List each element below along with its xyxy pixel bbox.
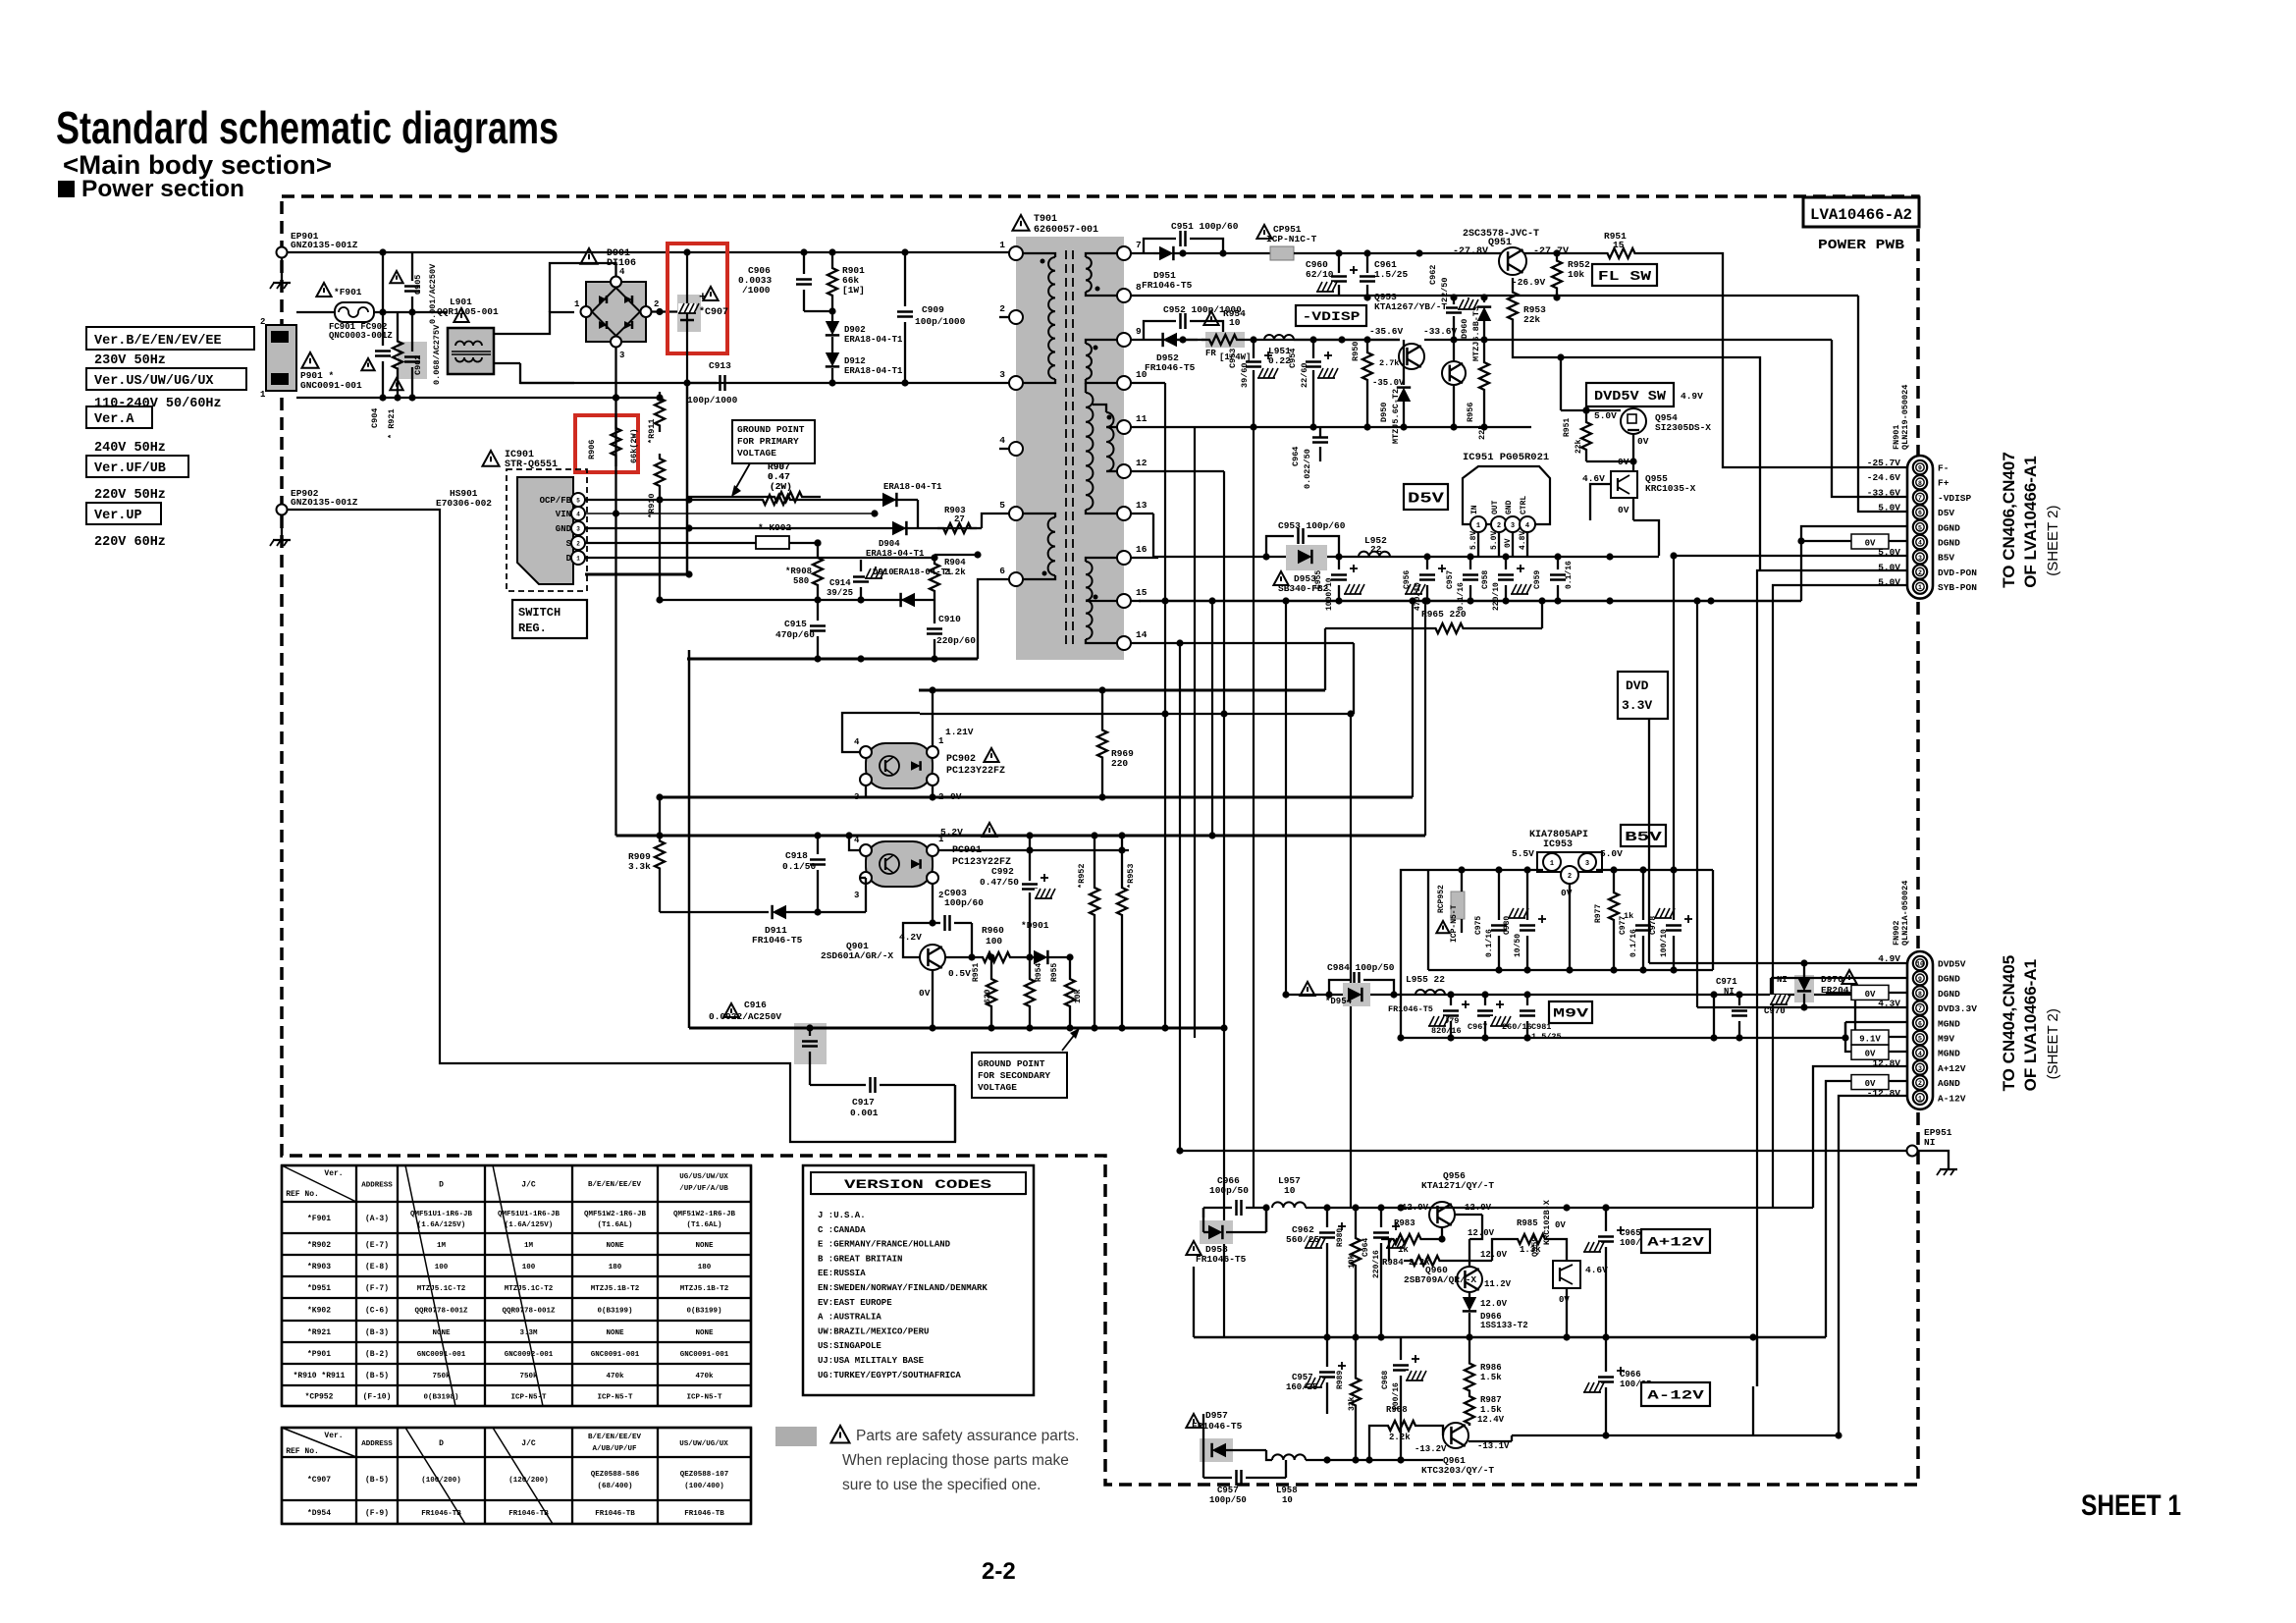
transistor Q901 [920,945,945,970]
svg-text:C905: C905 [413,275,423,295]
svg-text:FR1046-T5: FR1046-T5 [1388,1004,1433,1014]
wire rail 851 [616,835,1426,838]
svg-text:3: 3 [1585,860,1589,868]
svg-text:-VDISP: -VDISP [1302,309,1360,324]
svg-text:2: 2 [1497,522,1501,530]
svg-text:MTZJ6.8B-T3: MTZJ6.8B-T3 [1471,306,1481,361]
svg-text:UG:TURKEY/EGYPT/SOUTHAFRICA: UG:TURKEY/EGYPT/SOUTHAFRICA [818,1371,961,1380]
inductor L951 [1264,335,1294,340]
svg-text:NONE: NONE [695,1242,714,1250]
svg-text:MGND: MGND [1938,1018,1960,1029]
wire R988 left [1369,1426,1382,1460]
note ground point primary [732,420,815,463]
wire D body bottom [585,573,689,576]
connector FN902 pin 1 A-12V [1913,1091,1927,1105]
svg-text:1M: 1M [524,1242,534,1250]
resistor R986 [1465,1360,1474,1394]
svg-text:220/16: 220/16 [1372,1250,1381,1278]
capacitor C977 [1635,924,1651,927]
wire rail 671 [687,658,978,661]
wire D5V rail [1153,556,1659,558]
wire Q954 rail [1561,409,1621,411]
svg-text:(100/200): (100/200) [421,1477,461,1485]
svg-text:(68/400): (68/400) [597,1483,632,1490]
svg-text:1: 1 [1918,584,1922,591]
svg-text:(2W): (2W) [770,481,792,492]
svg-text:-26.9V: -26.9V [1512,277,1546,288]
IC901 pin D [571,551,585,565]
zener D950 [1397,388,1411,402]
resistor R901 [828,252,837,311]
capacitor C910 [927,627,942,630]
svg-text:MTZJ5.1C-T2: MTZJ5.1C-T2 [417,1285,466,1293]
capacitor C971 [1732,1009,1747,1012]
wire S pin [585,542,756,544]
wire Q901 base [903,923,933,957]
svg-text:D: D [566,554,572,564]
wire pin5 line [918,527,982,529]
wire rail 1047 [689,1027,1224,1030]
capacitor C964b [1373,1231,1389,1234]
wire Q959 down [1566,1288,1568,1337]
svg-text:L955 22: L955 22 [1406,974,1445,985]
svg-text:R987: R987 [1480,1395,1502,1405]
svg-text:C917: C917 [852,1097,875,1108]
svg-text:C957: C957 [1446,570,1455,589]
diode D904 [892,521,906,535]
svg-text:C953 100p/60: C953 100p/60 [1278,520,1346,531]
connector FN902 pin 4 MGND [1913,1046,1927,1059]
svg-text:3: 3 [854,891,859,900]
svg-text:5.8V: 5.8V [1469,531,1478,550]
wire fuse to L901 [374,311,448,313]
svg-text:ICP-N5-T: ICP-N5-T [686,1394,722,1402]
diode D901s [1034,950,1047,964]
svg-text:C913: C913 [709,360,731,371]
svg-text:D5V: D5V [1408,490,1444,507]
svg-text:2: 2 [938,792,943,802]
wire d958 join [1265,1208,1267,1232]
wire rail F+ [1130,295,1858,297]
svg-text:-VDISP: -VDISP [1938,493,1972,504]
T901 pin 3 [1009,376,1023,390]
version codes box [803,1165,1034,1395]
svg-text:B5V: B5V [1625,830,1663,845]
svg-text:FR: FR [1205,349,1216,358]
wire Q955 vert [1632,461,1634,471]
T901 pin 12 [1117,464,1131,478]
wire rail pin12 [1130,470,1224,472]
svg-text:ERA18-04-T1: ERA18-04-T1 [883,482,942,492]
svg-text:0V: 0V [1637,436,1649,447]
wire P901 bottom [296,397,616,399]
svg-text:VOLTAGE: VOLTAGE [978,1082,1017,1093]
capacitor C965 [1598,1235,1614,1238]
svg-text:11.2V: 11.2V [1484,1279,1512,1289]
resistor R951d [1581,410,1591,461]
wire rail pin10 [1130,382,1165,384]
capacitor C953 [1266,536,1294,557]
svg-text:J/C: J/C [521,1181,536,1190]
wire bottom gnd rail [1194,1336,1826,1338]
IC951 pin GND [1505,516,1521,532]
wire bridge bottom rail [616,397,661,399]
svg-text:C962: C962 [1428,265,1438,285]
protector CP951 [1270,246,1294,260]
connector FN902 pin 8 DGND [1913,986,1927,1000]
wire rail VDISP [1130,339,1400,341]
svg-text:OCP/FB: OCP/FB [540,496,572,506]
svg-text:470k: 470k [695,1373,714,1380]
svg-text:33k: 33k [1348,1396,1357,1411]
svg-text:FR1046-T5: FR1046-T5 [1192,1421,1243,1432]
fuse FC901 [335,302,374,322]
svg-text:DVD5V SW: DVD5V SW [1594,389,1667,405]
resistor R984 [1404,1256,1448,1266]
svg-text:GNC0091-001: GNC0091-001 [417,1351,466,1359]
schematic dashed border [282,196,1918,1485]
svg-text:AGND: AGND [1938,1078,1960,1089]
svg-text:FOR PRIMARY: FOR PRIMARY [737,436,799,447]
svg-text:4: 4 [1918,540,1922,547]
svg-text:ERA18-04-T1: ERA18-04-T1 [844,366,903,376]
wire bottom left vert [1202,1208,1204,1217]
connector FN902 pin 5 M9V [1913,1031,1927,1045]
T901 pin2 stub [999,316,1011,318]
svg-text:B :GREAT BRITAIN: B :GREAT BRITAIN [818,1254,902,1264]
svg-text:LVA10466-A2: LVA10466-A2 [1810,206,1912,224]
svg-text:(T1.6AL): (T1.6AL) [686,1221,721,1229]
svg-text:UG/US/UW/UX: UG/US/UW/UX [679,1173,728,1181]
svg-text:*R921: *R921 [307,1328,331,1337]
svg-text:*D901: *D901 [1021,920,1049,931]
svg-text:220p/60: 220p/60 [936,635,976,646]
svg-text:22/60: 22/60 [1300,362,1309,388]
svg-text:470p/60: 470p/60 [775,629,815,640]
svg-text:R950: R950 [1351,342,1361,361]
svg-text:1.5k: 1.5k [1480,1373,1502,1382]
wire rail pin13 [1130,513,1153,514]
svg-text:C968: C968 [1381,1371,1390,1389]
svg-text:TO CN406,CN407: TO CN406,CN407 [2000,452,2018,588]
svg-text:12.4V: 12.4V [1477,1415,1505,1425]
wire L901 lower to rail [494,362,520,364]
resistor R907 [756,495,797,505]
wire bus 1277 [1253,427,1255,1208]
svg-text:R986: R986 [1480,1363,1502,1373]
svg-text:0.022/50: 0.022/50 [1303,449,1312,489]
wire DVD5V to pin10 [1649,962,1908,964]
svg-text:OUT: OUT [1491,500,1500,514]
DVD 3.3V box [1618,672,1668,719]
svg-text:2SB709A/QR/-X: 2SB709A/QR/-X [1404,1274,1476,1285]
capacitor C960 [1338,253,1340,273]
svg-text:Standard schematic diagrams: Standard schematic diagrams [56,102,559,153]
svg-text:ADDRESS: ADDRESS [361,1440,393,1448]
svg-text:TO CN404,CN405: TO CN404,CN405 [2000,955,2018,1092]
svg-text:0V: 0V [1865,990,1876,1000]
svg-text:9.1V: 9.1V [1859,1035,1881,1045]
svg-text:1: 1 [260,390,266,400]
svg-text:(B-3): (B-3) [365,1328,389,1337]
svg-text:12.0V: 12.0V [1480,1299,1508,1309]
wire bridge top [550,263,616,312]
IC901 dashed box [507,469,587,591]
svg-text:C966: C966 [1620,1370,1641,1380]
svg-text:5: 5 [1918,1036,1922,1043]
svg-text:NI: NI [1924,1137,1935,1148]
svg-text:3: 3 [854,792,859,802]
resistor R965 [1428,623,1470,633]
switch reg label [512,600,587,638]
version label Ver.UP [86,503,161,524]
M9V box [1549,1001,1592,1023]
svg-text:13: 13 [1136,500,1148,511]
red highlight box R906 [575,415,638,472]
svg-text:QLN21A-050024: QLN21A-050024 [1900,881,1910,946]
svg-text:GNC0091-001: GNC0091-001 [300,380,362,391]
svg-text:39/60: 39/60 [1240,362,1250,388]
resistor R988 [1382,1421,1421,1431]
svg-text:DGND: DGND [1938,538,1960,549]
wire IC953 gnd [1569,884,1571,970]
diode D958 [1200,1220,1233,1244]
svg-text:FR1046-T5: FR1046-T5 [1145,362,1196,373]
transformer T901 body [1016,237,1124,660]
connector FN902 pin 7 DVD3.3V [1913,1001,1927,1014]
svg-text:4: 4 [854,836,860,845]
svg-text:0V: 0V [919,988,931,999]
svg-text:0(B3199): 0(B3199) [686,1308,721,1316]
resistor R980 [1351,1208,1361,1296]
svg-text:10: 10 [1282,1495,1293,1505]
svg-text:4.8V: 4.8V [1519,531,1527,550]
svg-text:0.1/16: 0.1/16 [1629,929,1638,957]
IC901 pin GND [571,521,585,535]
svg-text:GND: GND [1505,500,1514,514]
svg-text:SI2305DS-X: SI2305DS-X [1655,422,1711,433]
wire A-12 to pin1 [1839,1096,1908,1435]
svg-text:750k: 750k [432,1373,451,1380]
svg-text:*C907: *C907 [699,306,728,318]
svg-text:4.3V: 4.3V [1878,999,1900,1009]
transistor Q954 [1621,408,1646,434]
svg-text:3: 3 [576,526,580,533]
connector FN901 pin 9 F- [1913,460,1927,474]
svg-text:QMF51U1-1R6-JB: QMF51U1-1R6-JB [498,1211,561,1218]
svg-text:*R902: *R902 [307,1241,331,1250]
svg-text:1: 1 [1918,1095,1922,1102]
capacitor C958 [1498,573,1514,576]
svg-text:(100/400): (100/400) [684,1483,724,1490]
inductor L952 [1359,552,1390,557]
svg-text:0.47/50: 0.47/50 [980,877,1019,888]
connector FN902 pin 9 DGND [1913,971,1927,985]
resistor R963v [1117,836,1127,967]
connector EP951 [1907,1146,1918,1157]
svg-text:S: S [566,539,572,549]
wire SYB-PON pin1 [1773,585,1908,1208]
svg-text:820/16: 820/16 [1431,1026,1462,1036]
svg-text:D: D [439,1181,444,1190]
svg-text:3: 3 [619,351,624,360]
wire Q956-Q960 [1455,1214,1482,1216]
capacitor C914 [853,575,869,578]
svg-text:GROUND POINT: GROUND POINT [978,1058,1045,1069]
svg-text:ICP-N5-T: ICP-N5-T [597,1394,633,1402]
svg-text:UW:BRAZIL/MEXICO/PERU: UW:BRAZIL/MEXICO/PERU [818,1326,929,1336]
wire C907 node down [686,383,689,574]
svg-text:R983: R983 [1394,1218,1415,1228]
svg-text:ERA18-04-T1: ERA18-04-T1 [844,335,903,345]
wire AGND pin2 [1826,1081,1908,1337]
resistor R921 [393,312,402,398]
svg-text:160/25: 160/25 [1286,1382,1317,1392]
wire PC902 pin4 [842,713,920,752]
svg-text:3.3M: 3.3M [519,1329,538,1337]
svg-text:3.3k: 3.3k [628,861,651,872]
svg-text:8: 8 [1918,480,1922,487]
svg-text:470/10: 470/10 [1414,582,1422,611]
svg-text:D: D [439,1439,444,1448]
wire A+12 right [1429,1207,1813,1209]
svg-text:220V 50Hz: 220V 50Hz [94,488,166,503]
resistor R962 [1090,836,1099,967]
bridge rectifier D901 [586,282,646,342]
svg-text:D902: D902 [844,325,866,335]
svg-text:C957: C957 [1217,1486,1239,1495]
svg-text:Power section: Power section [81,176,244,202]
svg-text:GNC0091-001: GNC0091-001 [680,1351,729,1359]
svg-text:100: 100 [522,1264,536,1271]
capacitor C978 [1666,924,1682,927]
svg-text:0(B3198): 0(B3198) [423,1394,458,1402]
diode D902 [826,321,839,335]
svg-text:KTA1267/YB/-T: KTA1267/YB/-T [1374,301,1447,312]
IC901 pin S [571,536,585,550]
table 1 [282,1164,751,1166]
svg-text:D970: D970 [1821,974,1843,985]
capacitor C969 [1393,1364,1409,1367]
T901 secondary winding 3b [1106,412,1114,471]
svg-text:2: 2 [260,317,265,327]
wire Q961 emitter [1468,1440,1512,1442]
version label Ver.UF/UB [86,456,188,477]
svg-text:2: 2 [1918,1080,1922,1087]
svg-text:C918: C918 [785,850,808,861]
svg-text:100/16: 100/16 [1392,1382,1401,1411]
connector FN902 pin 6 MGND [1913,1016,1927,1030]
wire PC901 pin3 [860,877,866,879]
svg-text:10k: 10k [1348,1254,1357,1269]
resistor R950 [1362,340,1372,393]
B5V box [1621,825,1666,846]
svg-text:2.7k: 2.7k [1379,358,1399,368]
svg-text:C975: C975 [1474,916,1483,935]
T901 pin 11 [1117,420,1131,434]
svg-text:B/E/EN/EE/EV: B/E/EN/EE/EV [588,1434,642,1441]
svg-text:FR1046-TB: FR1046-TB [684,1510,724,1518]
svg-text:6: 6 [999,566,1005,576]
svg-text:Ver.B/E/EN/EV/EE: Ver.B/E/EN/EV/EE [94,334,222,349]
diode D903 [882,493,896,507]
capacitor C962b [1319,1231,1335,1234]
svg-text:C :CANADA: C :CANADA [818,1225,866,1235]
svg-text:100: 100 [435,1264,449,1271]
svg-text:DVD3.3V: DVD3.3V [1938,1003,1977,1014]
capacitor C954 [1312,340,1314,358]
svg-text:C978: C978 [1649,916,1658,935]
svg-text:0V: 0V [1555,1220,1566,1230]
capacitor C984 [1329,980,1350,995]
svg-text:5: 5 [1918,524,1922,531]
wire Q954 down [1632,434,1634,461]
wire rail F- [1130,252,1153,254]
svg-text:0.001: 0.001 [850,1108,879,1118]
T901 pin 6 [1009,572,1023,586]
transistor Q951 [1499,247,1526,275]
svg-text:MTZJ5.1C-T2: MTZJ5.1C-T2 [505,1285,554,1293]
svg-text:* R921: * R921 [387,408,397,439]
svg-text:5: 5 [999,500,1005,511]
svg-text:2SC3578-JVC-T: 2SC3578-JVC-T [1463,229,1539,240]
transistor Q960 [1457,1267,1482,1292]
T901 pin 13 [1117,507,1131,520]
svg-text:[1W]: [1W] [842,285,865,296]
svg-text:1: 1 [576,556,580,563]
svg-text:VOLTAGE: VOLTAGE [737,448,776,459]
IC951 pin OUT [1491,516,1507,532]
svg-text:180: 180 [698,1264,712,1271]
svg-text:C957: C957 [1292,1373,1313,1382]
wire PC902 pin3 down [865,785,867,797]
resistor R989 [1351,1360,1361,1424]
svg-text:ICP-N1C-T: ICP-N1C-T [1266,234,1317,244]
svg-text:1.5/25: 1.5/25 [1374,269,1409,280]
resistor R951 [1601,248,1641,258]
svg-text:1.21V: 1.21V [945,727,974,737]
svg-text:100: 100 [986,936,1002,947]
wire R985 right [1551,1239,1567,1261]
svg-text:REG.: REG. [518,622,547,635]
capacitor C957 [1463,573,1478,576]
svg-text:F-: F- [1938,463,1949,474]
svg-text:C955: C955 [1314,570,1323,589]
svg-text:A :AUSTRALIA: A :AUSTRALIA [818,1313,881,1323]
connector FN901 pin 3 B5V [1913,550,1927,564]
svg-text:5.0V: 5.0V [1490,531,1499,550]
svg-text:T901: T901 [1034,214,1057,225]
svg-text:220: 220 [1111,758,1128,769]
diode D910 [901,593,915,607]
red highlight box C907 [667,243,727,353]
T901 pin 2 [1009,310,1023,324]
svg-text:DGND: DGND [1938,989,1960,1000]
svg-text:0V: 0V [1618,457,1629,467]
svg-text:GNC0091-001: GNC0091-001 [591,1351,640,1359]
DVD5V SW box [1586,383,1674,406]
svg-text:10: 10 [1916,961,1924,968]
wire to CP951 [1223,252,1270,254]
svg-text:-27.8V: -27.8V [1453,246,1488,257]
wire M9V gnd [1401,1037,1845,1039]
svg-text:220V 60Hz: 220V 60Hz [94,535,166,550]
protector RCP952 [1451,892,1465,919]
T901 pin 4 [1009,442,1023,456]
capacitor C905 [404,285,420,288]
svg-text:22/50: 22/50 [1440,277,1450,302]
connector FN901 pin 6 D5V [1913,505,1927,518]
